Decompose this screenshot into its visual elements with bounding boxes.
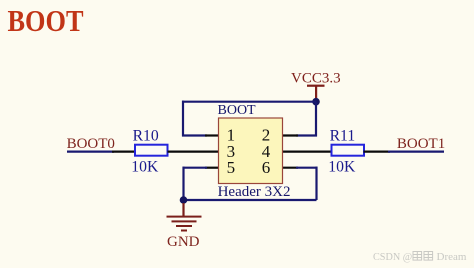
- wire R11 to BOOT1: [388, 151, 444, 153]
- wire right bottom vertical: [315, 167, 317, 200]
- junction dot at ground tap: [180, 196, 188, 204]
- pin wire into R10 left: [112, 151, 136, 153]
- resistor R11: [328, 128, 364, 176]
- pin wire out of R11: [364, 151, 391, 153]
- wire left bottom vertical: [182, 167, 184, 200]
- resistor R10: [131, 128, 167, 176]
- svg-text:VCC3.3: VCC3.3: [291, 71, 341, 87]
- wire right vertical from VCC junction: [315, 102, 317, 137]
- wire top loop horizontal: [182, 101, 316, 103]
- svg-text:5: 5: [227, 158, 236, 177]
- svg-text:BOOT0: BOOT0: [67, 136, 115, 152]
- svg-text:BOOT: BOOT: [8, 3, 84, 38]
- pin 2 stub: [282, 134, 299, 136]
- pin wire R10 to header pin 3: [168, 151, 220, 153]
- junction dot at VCC tap: [312, 98, 320, 106]
- svg-text:R11: R11: [330, 128, 356, 145]
- svg-text:BOOT: BOOT: [218, 103, 257, 118]
- power VCC3.3: [291, 71, 341, 100]
- svg-text:10K: 10K: [328, 159, 356, 176]
- svg-text:Header 3X2: Header 3X2: [218, 184, 291, 200]
- header U1 BOOT (Header 3X2): [218, 103, 291, 200]
- pin 5 stub: [205, 167, 219, 169]
- svg-text:6: 6: [262, 158, 271, 177]
- pin 1 stub: [205, 134, 219, 136]
- ground GND: [167, 203, 202, 250]
- svg-text:Dream: Dream: [437, 251, 467, 263]
- svg-text:R10: R10: [133, 128, 159, 145]
- pin 4 stub to R11: [282, 151, 333, 153]
- svg-text:CSDN @: CSDN @: [373, 252, 412, 263]
- wire pin2 row navy part: [296, 134, 317, 136]
- wire pin5 row navy part: [183, 167, 208, 169]
- svg-text:GND: GND: [167, 234, 200, 250]
- wire left vertical of top loop: [182, 101, 184, 137]
- pin 6 stub: [282, 167, 299, 169]
- watermark: [373, 251, 467, 263]
- svg-text:BOOT1: BOOT1: [397, 136, 445, 152]
- wire pin1 row navy part: [182, 134, 207, 136]
- wire pin6 row navy part: [296, 167, 318, 169]
- wire bottom horizontal: [184, 199, 317, 201]
- wire BOOT0 to R10: [67, 151, 114, 153]
- svg-text:10K: 10K: [131, 159, 159, 176]
